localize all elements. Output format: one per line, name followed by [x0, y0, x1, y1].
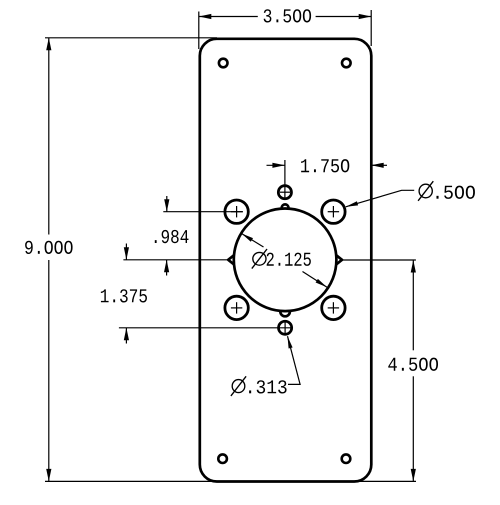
notch left — [228, 255, 234, 264]
dim 1.750 ext — [284, 160, 286, 199]
dim 3.500 ext right — [370, 10, 372, 46]
corner hole TR — [342, 59, 351, 68]
text D2.125 — [252, 249, 267, 269]
9.000 arrow top — [46, 38, 51, 51]
notch right — [336, 255, 342, 264]
text D.500 — [418, 181, 433, 201]
screw hole TL — [225, 200, 248, 223]
dim 1.375 lower line — [119, 327, 292, 329]
crosshair hole BR — [328, 307, 339, 309]
crosshair small hole top — [280, 191, 290, 193]
dim 1.750 line left — [267, 164, 285, 166]
.984 arrow top — [164, 199, 169, 212]
text 9.000 — [25, 241, 33, 254]
3.500 arrow right — [359, 14, 372, 19]
text 3.500 — [264, 9, 272, 22]
small hole top — [278, 186, 291, 199]
dim 9.000 line — [48, 38, 50, 235]
1.750 arrow left — [272, 163, 285, 168]
leader D.313 — [288, 336, 301, 384]
4.500 arrow top — [411, 260, 416, 273]
text 4.500 — [388, 358, 397, 371]
D.313 leader arrow — [288, 336, 293, 348]
screw hole BR — [322, 296, 345, 319]
dim 3.500 ext left — [198, 12, 200, 50]
notch top — [282, 204, 289, 207]
small hole bottom — [279, 321, 292, 334]
4.500 arrow bottom — [411, 469, 416, 482]
D2.125 leader arrow lower — [316, 279, 327, 287]
notch bottom — [280, 312, 290, 317]
corner hole TL — [219, 59, 228, 68]
dim 1.750 line right — [371, 164, 387, 166]
dim .984 arrow shafts — [166, 196, 168, 212]
1.375 arrow bottom — [124, 328, 129, 341]
.984 arrow bottom — [164, 260, 169, 273]
text .984 — [155, 240, 157, 243]
1.750 arrow right — [371, 163, 384, 168]
3.500 arrow left — [199, 14, 212, 19]
text 1.750 — [301, 159, 309, 172]
dim 4.500 line — [412, 260, 414, 350]
dim 3.500 line — [199, 16, 258, 18]
dim 9.000 ext bottom — [45, 480, 416, 482]
D.500 leader arrow — [346, 201, 358, 207]
big bore circle — [234, 208, 337, 311]
dim .984 lower line — [123, 259, 228, 261]
text 1.375 — [101, 289, 109, 302]
corner hole BL — [218, 454, 227, 463]
dim 9.000 ext top — [45, 37, 217, 39]
plate outline — [200, 39, 371, 482]
1.375 arrow top — [124, 247, 129, 259]
9.000 arrow bottom — [46, 469, 51, 482]
screw hole BL — [225, 296, 248, 319]
leader D2.125 upper — [242, 234, 264, 248]
leader D.500 — [346, 190, 414, 207]
D2.125 leader arrow upper — [242, 234, 254, 242]
screw hole TR — [322, 200, 345, 223]
dim 1.375 arrow shafts — [125, 244, 127, 260]
dim 4.500 ext top — [342, 259, 416, 261]
crosshair hole TL — [231, 211, 243, 213]
dim .984 upper line — [163, 211, 243, 213]
leader D2.125 lower — [303, 272, 328, 288]
crosshair small hole bottom — [284, 321, 286, 334]
crosshair hole TR — [328, 211, 339, 213]
crosshair hole BL — [231, 307, 242, 309]
corner hole BR — [342, 454, 351, 463]
text D.313 — [231, 376, 246, 396]
